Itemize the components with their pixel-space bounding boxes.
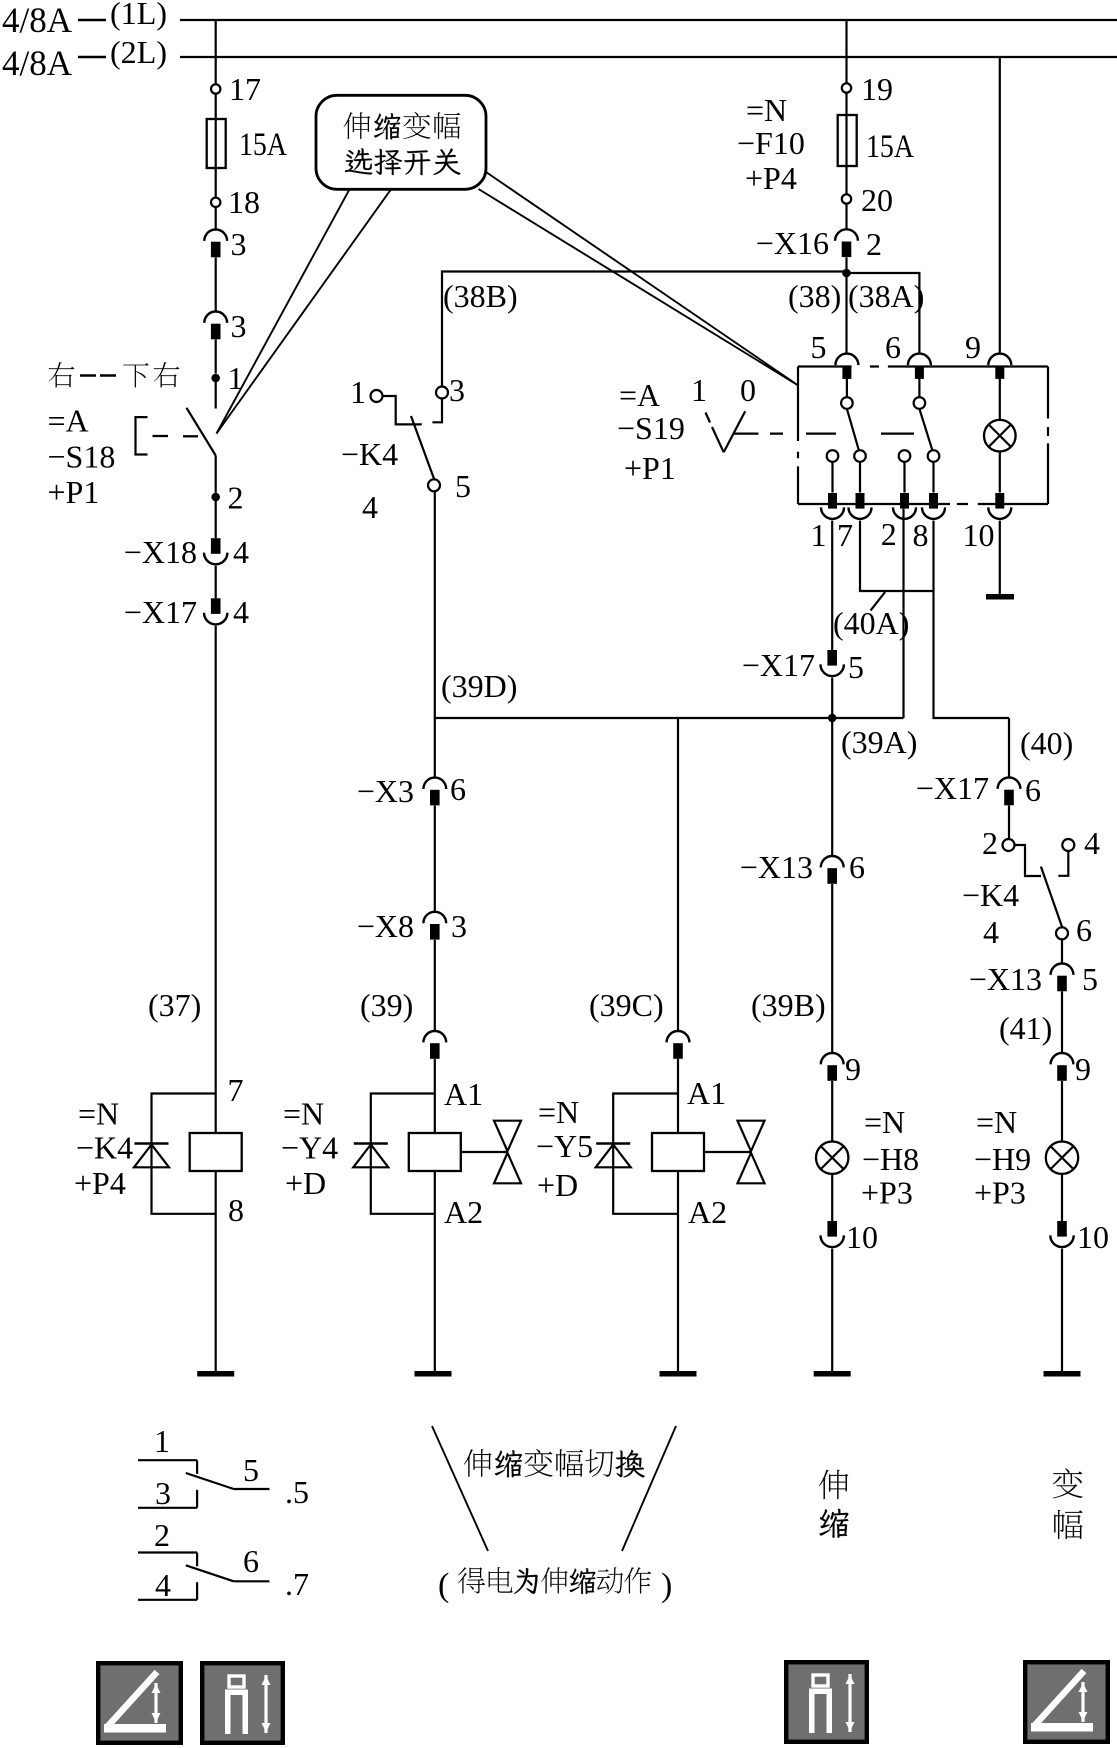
svg-text:+P3: +P3 (974, 1175, 1026, 1211)
terminal 20 (842, 182, 893, 218)
svg-text:(41): (41) (999, 1010, 1052, 1046)
label =N -H9 +P3 (974, 1104, 1031, 1211)
svg-text:−K4: −K4 (962, 877, 1019, 913)
S19 terminal 5 (811, 329, 859, 397)
svg-text:(39): (39) (360, 987, 413, 1023)
svg-text:6: 6 (1076, 912, 1092, 948)
connector -X8 pin 3 (357, 908, 467, 944)
wire -X13 pin6 down (831, 884, 833, 1053)
svg-text:−X17: −X17 (916, 770, 989, 806)
svg-text:.5: .5 (285, 1474, 309, 1510)
connector -X13 pin 5 (969, 961, 1098, 997)
svg-text:3: 3 (231, 226, 247, 262)
svg-text:+P3: +P3 (861, 1175, 913, 1211)
wire (38B) from contact 3 to node X16 (442, 272, 847, 387)
wire 1L to terminal 17 (215, 20, 217, 84)
relay coil K4 (190, 1133, 242, 1171)
svg-text:9: 9 (1075, 1051, 1091, 1087)
label (40) (1020, 725, 1073, 761)
wire -X18 to -X17 (215, 566, 217, 599)
label =N -Y5 +D (536, 1094, 593, 1203)
ground circuit 37 (197, 1371, 234, 1377)
wire (38) junction to S19 terminal 5 (845, 273, 847, 354)
label A1 Y5 (687, 1075, 726, 1111)
svg-text:7: 7 (837, 517, 853, 553)
svg-text:15A: 15A (239, 127, 287, 163)
label 4/8A (1L) (2, 0, 167, 40)
wire K4 coil to ground (215, 1171, 217, 1371)
svg-text:4: 4 (233, 594, 249, 630)
svg-text:(39D): (39D) (441, 668, 517, 704)
wire 39D to -X3 (434, 718, 436, 778)
svg-text:6: 6 (849, 849, 865, 885)
wire -X17 pin5 to junction 39A (831, 678, 833, 718)
label =A -S19 +P1 (617, 377, 685, 486)
svg-text:2: 2 (866, 226, 882, 262)
valve symbol Y5 (704, 1121, 765, 1184)
svg-text:8: 8 (228, 1192, 244, 1228)
svg-text:(40): (40) (1020, 725, 1073, 761)
terminal 17 (211, 71, 261, 107)
wire fuse to terminal 20 (845, 166, 847, 195)
diode across Y5 (596, 1094, 678, 1214)
node 1 (211, 360, 243, 396)
svg-text:4: 4 (233, 534, 249, 570)
svg-text:6: 6 (243, 1543, 259, 1579)
label (39B) (751, 987, 826, 1023)
svg-text:20: 20 (861, 182, 893, 218)
label (37) (148, 987, 201, 1023)
label 4/8A (2L) (2, 34, 167, 83)
svg-text:2: 2 (881, 516, 897, 552)
svg-text:4: 4 (983, 914, 999, 950)
ground circuit 39C (660, 1371, 697, 1377)
label A2 Y4 (444, 1194, 483, 1230)
wire to ground circuit 39B (831, 1249, 833, 1371)
svg-text:.7: .7 (285, 1566, 309, 1602)
connector -X18 pin 4 (124, 534, 249, 570)
label (39A) (841, 724, 917, 760)
label (38A) (848, 278, 924, 314)
svg-text:=N: =N (283, 1096, 324, 1132)
svg-text:6: 6 (1025, 772, 1041, 808)
svg-text:5: 5 (455, 468, 471, 504)
wire (38A) junction to S19 terminal 6 (847, 273, 920, 354)
svg-text:+D: +D (537, 1167, 578, 1203)
wire (40A) S19 pin7 to pin8 wire (860, 521, 1009, 778)
svg-text:4: 4 (1084, 825, 1100, 861)
svg-text:3: 3 (449, 372, 465, 408)
svg-text:=N: =N (864, 1104, 905, 1140)
connector pin 10 lamp H9 (1050, 1219, 1109, 1255)
connector -X16 pin 2 (756, 225, 882, 262)
label 1 0 positions S19 (691, 372, 756, 408)
svg-text:A2: A2 (444, 1194, 483, 1230)
connector -X13 pin 6 (740, 849, 865, 885)
wire 1L to terminal 19 (845, 20, 847, 83)
wire pin9 to lamp H9 (1061, 1081, 1063, 1141)
wire -X16 to junction (845, 257, 847, 273)
wire to node 1 (215, 340, 217, 374)
ground circuit 39B (814, 1371, 851, 1377)
label (39D) (441, 668, 517, 704)
connector above Y5 A1 (667, 1031, 690, 1059)
terminal 18 (211, 184, 260, 220)
svg-text:5: 5 (848, 649, 864, 685)
ground circuit 41 (1044, 1371, 1081, 1377)
fuse 15A left (207, 119, 287, 168)
S19 terminal 9 (965, 329, 1011, 420)
icon telescoping bottom-right (786, 1662, 867, 1742)
S19 contact fixed 1 (827, 450, 839, 492)
svg-text:5: 5 (243, 1452, 259, 1488)
svg-text:−Y5: −Y5 (536, 1128, 593, 1164)
svg-text:=N: =N (746, 92, 787, 128)
terminal 19 (842, 71, 893, 107)
svg-text:=N: =N (78, 1096, 119, 1132)
wire -X8 down (434, 940, 436, 1031)
fuse -F10 15A (838, 115, 914, 166)
wire 39B junction to -X13 pin6 (831, 718, 833, 856)
label (38) (788, 278, 841, 314)
label 变幅 luffing (1053, 1468, 1083, 1539)
wire S19 pin1 down to -X17 (831, 521, 833, 650)
svg-text:5: 5 (811, 329, 827, 365)
wire 39C from 39D node down (677, 718, 679, 1031)
S19 contact pole 6-8 (914, 397, 940, 492)
connector pin 9 lamp H9 (1051, 1051, 1091, 1087)
callout tail to S19 (479, 172, 798, 385)
svg-text:17: 17 (229, 71, 261, 107)
diode across K4 coil (134, 1094, 216, 1214)
svg-text:+D: +D (285, 1165, 326, 1201)
wire circuit 37 (215, 626, 217, 1133)
contact reference 2-4 sheet .7 (138, 1517, 309, 1603)
switch S18 (136, 408, 216, 456)
svg-text:−S19: −S19 (617, 410, 685, 446)
label 伸缩 telescope (819, 1470, 849, 1538)
annotation lines 伸缩变幅切换 (432, 1426, 676, 1551)
svg-text:1: 1 (154, 1423, 170, 1459)
contact K4 changeover 1-3-5 (371, 387, 449, 492)
svg-text:1: 1 (811, 517, 827, 553)
S19 terminal 8 (913, 493, 946, 553)
solenoid coil Y5 (652, 1133, 704, 1171)
svg-text:−S18: −S18 (48, 439, 116, 475)
switch S19 enclosure (798, 367, 1048, 505)
wire to Y4 coil (434, 1059, 436, 1133)
svg-text:(1L): (1L) (110, 0, 167, 31)
S19 contact pole 5-7 (841, 397, 866, 492)
svg-text:2: 2 (982, 825, 998, 861)
label (41) (999, 1010, 1052, 1046)
wire -X3 to -X8 (434, 806, 436, 912)
svg-text:−X17: −X17 (742, 647, 815, 683)
icon luffing bottom-left (98, 1663, 181, 1743)
connector -X17 pin 6 (916, 770, 1041, 808)
svg-text:): ) (661, 1567, 672, 1604)
wire lamp H9 to pin 10 (1061, 1174, 1063, 1221)
svg-text:18: 18 (228, 184, 260, 220)
S19 mechanical link dashes (806, 433, 914, 435)
label pin 7 of K4 coil (228, 1072, 244, 1108)
svg-text:−K4: −K4 (341, 436, 398, 472)
svg-text:9: 9 (845, 1051, 861, 1087)
svg-text:(40A): (40A) (833, 605, 909, 641)
label =N -F10 +P4 (737, 92, 805, 196)
connector pin 3 upper (204, 226, 246, 262)
connector above Y4 A1 (423, 1031, 446, 1059)
ground circuit 39 (415, 1371, 452, 1377)
wire fuse to terminal 18 (215, 168, 217, 198)
wire to ground circuit 41 (1061, 1249, 1063, 1371)
svg-text:−X3: −X3 (357, 773, 414, 809)
svg-text:=A: =A (619, 377, 660, 413)
S19 terminal 1 (811, 493, 845, 553)
connector pin 10 lamp H8 (821, 1219, 879, 1255)
label (39C) (589, 987, 664, 1023)
svg-text:−X13: −X13 (740, 849, 813, 885)
svg-text:(39B): (39B) (751, 987, 826, 1023)
text (得电为伸缩动作) (438, 1567, 672, 1604)
label position 右--下右 (49, 362, 180, 387)
svg-text:(: ( (438, 1567, 449, 1604)
svg-text:+P4: +P4 (74, 1165, 126, 1201)
svg-text:(38B): (38B) (443, 278, 518, 314)
svg-text:2: 2 (154, 1517, 170, 1553)
wire node1 to switch S18 (215, 382, 217, 409)
diode across Y4 (353, 1094, 435, 1214)
svg-text:(39A): (39A) (841, 724, 917, 760)
svg-text:6: 6 (885, 329, 901, 365)
wire bus 2L (180, 56, 1117, 58)
wire S19 pin10 to ground (999, 521, 1001, 594)
label =N -Y4 +D (281, 1096, 338, 1202)
svg-text:(39C): (39C) (589, 987, 664, 1023)
wire lamp H8 to pin 10 (831, 1174, 833, 1221)
svg-text:8: 8 (913, 517, 929, 553)
svg-text:−H8: −H8 (862, 1141, 919, 1177)
lamp H8 (816, 1142, 848, 1174)
connector pin 9 lamp H8 (821, 1051, 861, 1087)
svg-text:2: 2 (228, 480, 244, 516)
icon telescoping bottom-left (202, 1663, 283, 1743)
contact reference 1-3 sheet .5 (138, 1423, 309, 1511)
svg-text:−X17: −X17 (124, 594, 197, 630)
label (40A) with leader (833, 592, 909, 641)
svg-text:15A: 15A (866, 129, 914, 165)
wire between pin3 connectors (215, 258, 217, 312)
svg-text:(38A): (38A) (848, 278, 924, 314)
connector -X17 pin 5 (742, 647, 864, 685)
label (38B) (443, 278, 518, 314)
svg-text:10: 10 (1077, 1219, 1109, 1255)
svg-text:−X13: −X13 (969, 961, 1042, 997)
node junction 38 (842, 269, 851, 278)
svg-text:−F10: −F10 (737, 125, 805, 161)
svg-text:3: 3 (155, 1475, 171, 1511)
wire bus 1L (180, 19, 1117, 21)
wire 18 down (215, 207, 217, 230)
wire -X17 pin6 to contact K4 (1008, 806, 1010, 840)
svg-text:−X8: −X8 (357, 908, 414, 944)
valve symbol Y4 (461, 1121, 521, 1184)
wire S18 to node 2 (215, 456, 217, 493)
svg-text:3: 3 (451, 908, 467, 944)
labels 1 3 4 5 -K4 for contact (341, 372, 471, 525)
svg-text:A1: A1 (687, 1075, 726, 1111)
node 2 (211, 480, 243, 516)
text 伸缩变幅切换 (464, 1449, 645, 1478)
callout tail to S18 (217, 189, 392, 433)
label (39) (360, 987, 413, 1023)
svg-text:6: 6 (450, 771, 466, 807)
svg-text:−K4: −K4 (76, 1130, 133, 1166)
ground S19 lamp (986, 594, 1014, 600)
S19 terminal 10 (963, 493, 1012, 553)
S19 terminal 6 (885, 329, 931, 397)
S19 lever (706, 411, 784, 452)
svg-text:4: 4 (155, 1567, 171, 1603)
svg-text:1: 1 (228, 360, 244, 396)
svg-text:A1: A1 (444, 1076, 483, 1112)
svg-text:4/8A: 4/8A (2, 43, 72, 83)
svg-text:−Y4: −Y4 (281, 1130, 338, 1166)
svg-text:1: 1 (350, 374, 366, 410)
svg-text:0: 0 (740, 372, 756, 408)
contact K4 changeover 2-4-6 (1003, 839, 1075, 939)
svg-text:10: 10 (846, 1219, 878, 1255)
label A2 Y5 (688, 1194, 727, 1230)
wire 19 to fuse F10 (845, 93, 847, 115)
svg-text:7: 7 (228, 1072, 244, 1108)
label =A -S18 +P1 for S18 (48, 403, 116, 511)
svg-text:(2L): (2L) (110, 34, 167, 70)
wire 20 to -X16 (845, 204, 847, 230)
svg-text:−H9: −H9 (974, 1141, 1031, 1177)
connector -X17 pin 4 (124, 594, 249, 630)
solenoid coil Y4 (409, 1133, 461, 1171)
wire circuit 41 to pin 9 (1061, 992, 1063, 1054)
svg-text:4: 4 (362, 489, 378, 525)
wire 17 to fuse (215, 94, 217, 119)
icon luffing bottom-right (1025, 1662, 1108, 1742)
wire node2 to -X18 (215, 501, 217, 538)
S19 contact fixed 2 (899, 450, 911, 492)
wire Y4 to ground (434, 1171, 436, 1371)
svg-text:=A: =A (48, 403, 89, 439)
wire Y5 to ground (677, 1171, 679, 1371)
svg-text:5: 5 (1082, 961, 1098, 997)
svg-text:1: 1 (691, 372, 707, 408)
wire 2L to S19 terminal 9 (999, 57, 1001, 354)
connector -X3 pin 6 (357, 771, 466, 809)
callout bubble 伸缩变幅选择开关 (316, 95, 486, 189)
labels 2 4 4 6 -K4 for right contact (962, 825, 1100, 950)
connector pin 3 lower (204, 308, 246, 344)
lamp inside S19 (984, 420, 1016, 493)
node junction 39A (828, 714, 837, 723)
svg-text:10: 10 (963, 517, 995, 553)
svg-text:+P4: +P4 (745, 160, 797, 196)
wire to Y5 coil (677, 1059, 679, 1133)
wire (39D) from contact 5 down and right to pin2 wire (435, 491, 904, 718)
svg-text:A2: A2 (688, 1194, 727, 1230)
label =N -H8 +P3 (861, 1104, 919, 1211)
svg-text:=N: =N (976, 1104, 1017, 1140)
wire pin9 to lamp H8 (831, 1081, 833, 1141)
svg-text:(38): (38) (788, 278, 841, 314)
lamp H9 (1046, 1142, 1078, 1174)
svg-text:9: 9 (965, 329, 981, 365)
label =N -K4 +P4 (74, 1096, 133, 1202)
S19 terminal 2 (881, 493, 916, 552)
svg-text:−X16: −X16 (756, 225, 829, 261)
label A1 Y4 (444, 1076, 483, 1112)
svg-text:+P1: +P1 (48, 474, 100, 510)
svg-text:=N: =N (538, 1094, 579, 1130)
wire contact to -X13 pin5 (1061, 939, 1063, 963)
svg-text:+P1: +P1 (624, 450, 676, 486)
svg-text:4/8A: 4/8A (2, 0, 72, 40)
S19 terminal 7 (837, 493, 872, 553)
svg-text:19: 19 (861, 71, 893, 107)
svg-text:(37): (37) (148, 987, 201, 1023)
label pin 8 of K4 coil (228, 1192, 244, 1228)
svg-text:3: 3 (231, 308, 247, 344)
svg-text:−X18: −X18 (124, 534, 197, 570)
